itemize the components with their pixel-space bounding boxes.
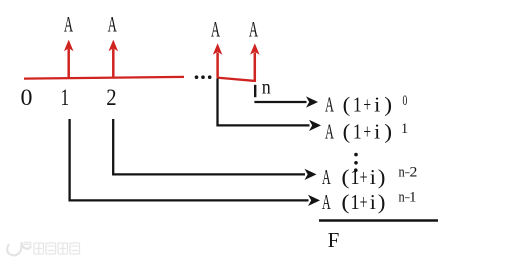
svg-text:A: A: [108, 12, 117, 36]
row 2: A(1+i)^1: [325, 119, 408, 143]
svg-text:n: n: [399, 163, 405, 179]
svg-text:(: (: [343, 93, 351, 116]
svg-text:1: 1: [409, 190, 417, 206]
svg-text:2: 2: [106, 85, 116, 110]
svg-text:(: (: [341, 191, 349, 214]
svg-text:+: +: [360, 190, 368, 213]
svg-text:A: A: [322, 191, 331, 214]
timeline ellipsis dots: [195, 75, 199, 79]
leader from t=n-1 to row 2: [218, 78, 322, 131]
svg-text:1: 1: [353, 94, 362, 117]
svg-text:A: A: [211, 17, 220, 41]
svg-text:): ): [384, 93, 392, 117]
watermark logo: [7, 242, 31, 255]
svg-text:): ): [384, 120, 392, 144]
svg-text:1: 1: [350, 166, 359, 189]
tick mark at t=n: [254, 85, 256, 97]
svg-text:i: i: [370, 165, 376, 188]
svg-text:): ): [378, 165, 386, 189]
svg-text:A: A: [325, 120, 334, 143]
cash-flow arrow at t=n-1: [213, 43, 223, 78]
leader from t=2 to row 3: [113, 119, 316, 180]
svg-text:0: 0: [21, 85, 33, 110]
svg-text:+: +: [360, 165, 368, 188]
svg-text:n: n: [399, 189, 405, 205]
row 4: A(1+i)^(n-1): [322, 188, 417, 214]
svg-text:A: A: [249, 17, 258, 41]
timeline segment n-1..n (red): [217, 78, 256, 81]
cash-flow arrow at t=n: [250, 43, 260, 81]
svg-text:i: i: [370, 191, 376, 214]
cash-flow arrow at t=2: [109, 40, 119, 78]
svg-text:1: 1: [401, 121, 408, 137]
svg-text:+: +: [363, 93, 371, 117]
svg-text:1: 1: [350, 191, 359, 214]
svg-text:i: i: [374, 120, 380, 143]
row 1: A(1+i)^0: [325, 92, 407, 117]
svg-text:1: 1: [353, 121, 362, 144]
vertical ellipsis: [354, 153, 358, 157]
row 3: A(1+i)^(n-2): [322, 163, 417, 189]
cash-flow arrow at t=1: [64, 40, 74, 78]
leader from t=1 to row 4: [70, 119, 320, 206]
svg-text:2: 2: [409, 164, 417, 181]
sum line: [319, 219, 438, 222]
svg-text:+: +: [363, 119, 371, 143]
svg-text:i: i: [374, 93, 380, 116]
svg-text:0: 0: [403, 92, 408, 109]
svg-text:1: 1: [61, 86, 70, 111]
timeline segment 0..n-1 (red): [24, 77, 184, 79]
svg-text:A: A: [322, 166, 331, 189]
svg-text:): ): [378, 190, 386, 214]
leader from t=n to row 1: [254, 96, 318, 107]
svg-text:(: (: [343, 120, 351, 143]
watermark text (faint): [34, 243, 80, 254]
svg-text:A: A: [64, 12, 73, 36]
svg-text:(: (: [341, 166, 349, 189]
svg-text:F: F: [328, 228, 340, 252]
svg-text:A: A: [325, 93, 334, 116]
svg-text:n: n: [262, 77, 271, 99]
